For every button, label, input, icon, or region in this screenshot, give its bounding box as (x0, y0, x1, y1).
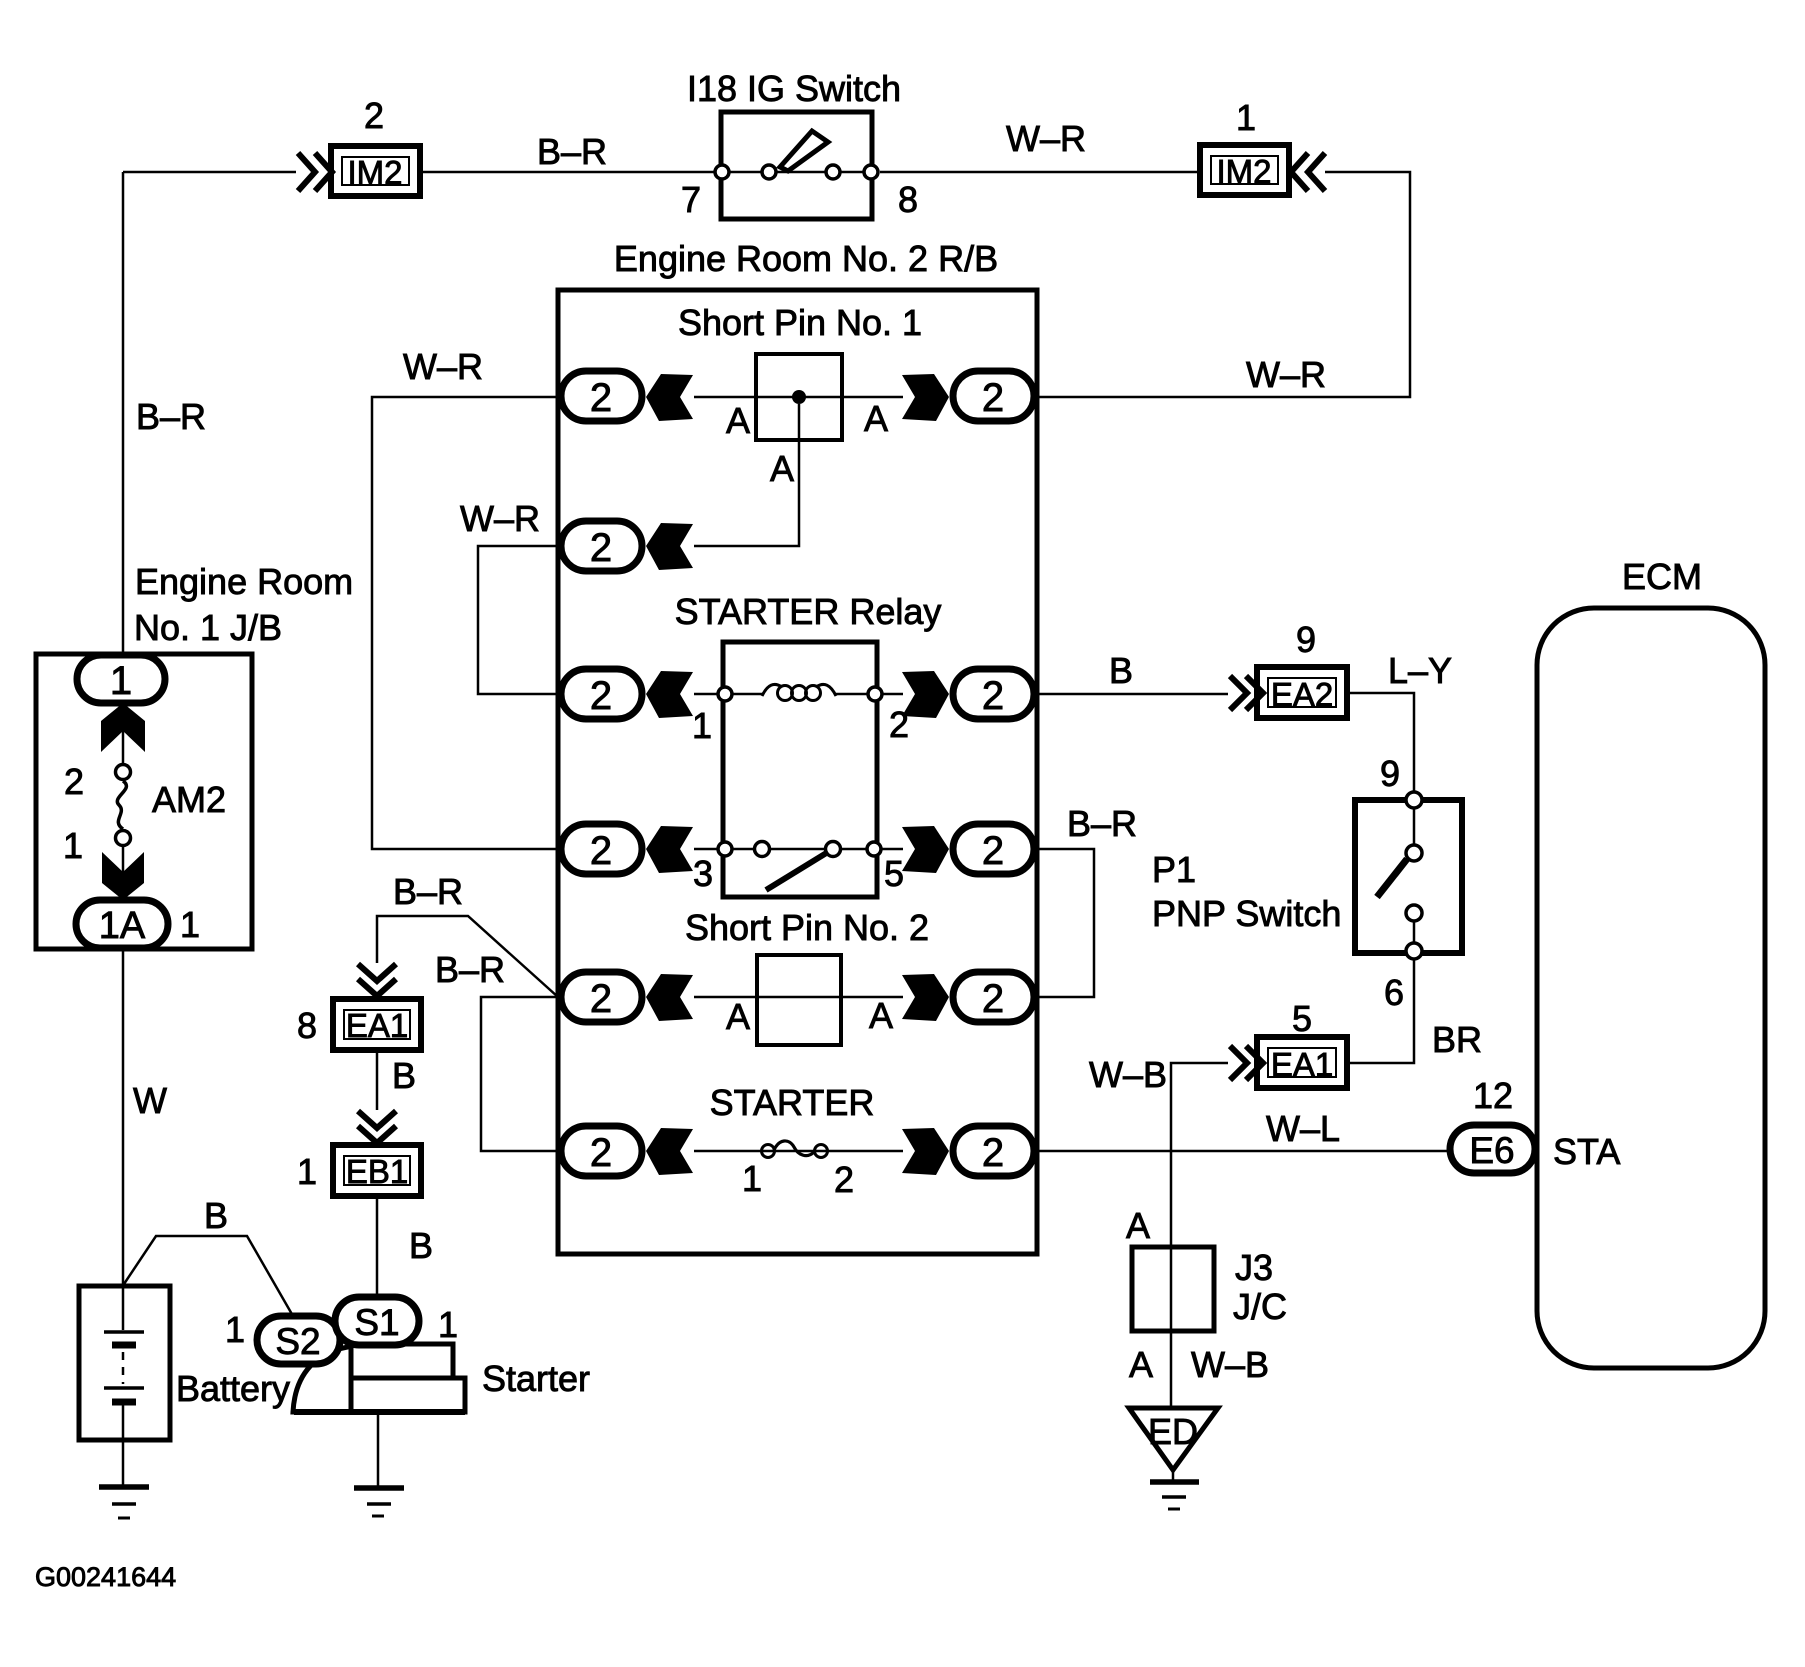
wire W-L from starter fuse to ECM STA (1037, 1150, 1450, 1153)
short pin No.1 body (756, 354, 842, 440)
ground (battery) (99, 1440, 149, 1518)
wire AM2 fuse link bottom (122, 847, 125, 875)
connector oval 2 (row4 left) (561, 824, 642, 874)
svg-text:A: A (864, 398, 888, 439)
wire B-R branch to EA1 (377, 916, 558, 997)
connector oval 2 (row6 left) (561, 1126, 642, 1176)
connector oval S2 (257, 1316, 340, 1364)
connector arrows into EA1 (down) (358, 964, 396, 996)
svg-text:5: 5 (1292, 998, 1312, 1039)
connector oval 2 (row2 left) (561, 521, 642, 571)
svg-text:W–R: W–R (403, 346, 483, 387)
svg-text:A: A (726, 400, 750, 441)
svg-text:2: 2 (982, 829, 1004, 873)
wire B-R from relay contact to short pin2 right (1037, 849, 1094, 997)
svg-text:EA2: EA2 (1271, 676, 1333, 713)
connector arrow (row3 left) (646, 671, 693, 718)
svg-text:1: 1 (742, 1158, 762, 1199)
relay coil pin circles (718, 687, 882, 701)
svg-text:I18 IG Switch: I18 IG Switch (687, 68, 901, 109)
battery (79, 1286, 170, 1440)
svg-text:1: 1 (63, 825, 83, 866)
svg-text:B: B (204, 1195, 228, 1236)
svg-text:STA: STA (1553, 1131, 1620, 1172)
connector arrow (row4 right) (902, 826, 949, 873)
switch P1 PNP Switch (1355, 792, 1462, 959)
svg-text:A: A (770, 448, 794, 489)
connector arrows into IM2 left (298, 153, 332, 191)
connector oval 2 (row5 left) (561, 972, 642, 1022)
svg-text:8: 8 (898, 179, 918, 220)
wire W-R from IG switch pin 8 to IM2 right (880, 171, 1200, 174)
wire B from EB1 to starter S1 (376, 1196, 379, 1297)
junction block Engine Room No. 2 R/B box (558, 290, 1037, 1254)
svg-text:Short Pin No. 2: Short Pin No. 2 (685, 907, 929, 948)
svg-text:PNP Switch: PNP Switch (1152, 893, 1341, 934)
svg-text:G00241644: G00241644 (35, 1562, 176, 1592)
connector oval 2 (row5 right) (953, 972, 1034, 1022)
svg-text:S2: S2 (275, 1321, 320, 1362)
connector oval 2 (row3 left) (561, 669, 642, 719)
wire B from EA1 to EB1 (376, 1050, 379, 1110)
svg-text:EA1: EA1 (1271, 1046, 1333, 1083)
svg-text:J/C: J/C (1233, 1286, 1287, 1327)
svg-text:2: 2 (590, 977, 612, 1021)
wire W-B from J3 to ED ground (1170, 1331, 1173, 1408)
wire row3 relay coil row (694, 693, 903, 696)
svg-text:2: 2 (64, 761, 84, 802)
relay coil (762, 684, 836, 700)
wire row1 inside R/B (694, 396, 903, 399)
svg-text:Engine Room: Engine Room (135, 561, 353, 602)
svg-text:A: A (869, 995, 893, 1036)
svg-text:2: 2 (834, 1159, 854, 1200)
svg-text:2: 2 (364, 95, 384, 136)
wire left vertical riser B-R / W (battery feed) (122, 172, 125, 1287)
svg-text:9: 9 (1380, 753, 1400, 794)
starter motor body (293, 1344, 465, 1412)
connector arrow (row2 left) (646, 523, 693, 570)
svg-text:ED: ED (1148, 1411, 1198, 1452)
wire W-B from junction to EA1 (1171, 1063, 1228, 1247)
svg-text:ECM: ECM (1622, 556, 1702, 597)
relay contact pin circles (718, 842, 881, 857)
svg-text:STARTER Relay: STARTER Relay (675, 591, 942, 632)
connector arrows out of IM2 right (1291, 153, 1325, 191)
svg-text:A: A (1126, 1205, 1150, 1246)
wire B from battery to starter S2 (124, 1236, 293, 1316)
connector arrow (row6 left) (646, 1128, 693, 1175)
svg-text:W–R: W–R (1246, 354, 1326, 395)
svg-text:1: 1 (180, 904, 200, 945)
switch I18 IG Switch (715, 112, 878, 219)
svg-text:A: A (1129, 1344, 1153, 1385)
svg-text:2: 2 (590, 526, 612, 570)
connector oval S1 (335, 1297, 419, 1345)
connector oval 2 (row1 right) (953, 371, 1034, 421)
svg-text:W–L: W–L (1266, 1108, 1340, 1149)
svg-text:2: 2 (982, 977, 1004, 1021)
svg-text:Battery: Battery (176, 1368, 290, 1409)
wire BR from PNP pin 6 to EA1 (1347, 960, 1414, 1063)
svg-text:BR: BR (1432, 1019, 1482, 1060)
svg-text:B: B (392, 1055, 416, 1096)
svg-text:2: 2 (982, 376, 1004, 420)
svg-text:B–R: B–R (393, 871, 463, 912)
connector oval 1A (J/B bottom) (76, 900, 168, 948)
connector oval 1 (J/B top) (77, 655, 165, 703)
svg-text:STARTER: STARTER (710, 1082, 875, 1123)
connector oval E6 (1450, 1125, 1535, 1173)
connector arrows into EA2 (1230, 676, 1263, 710)
svg-text:5: 5 (884, 853, 904, 894)
junction block Engine Room No. 1 J/B box (36, 654, 252, 949)
svg-text:J3: J3 (1235, 1247, 1273, 1288)
wire row4 relay contact row (694, 848, 903, 851)
svg-text:B: B (409, 1225, 433, 1266)
svg-text:L–Y: L–Y (1388, 650, 1452, 691)
connector oval 2 (row4 right) (953, 824, 1034, 874)
svg-text:IM2: IM2 (347, 154, 402, 191)
svg-text:2: 2 (590, 376, 612, 420)
relay contact lever (766, 852, 828, 890)
svg-text:9: 9 (1296, 619, 1316, 660)
connector arrow (row5 right) (902, 974, 949, 1021)
svg-text:1A: 1A (99, 905, 146, 947)
connector oval 2 (row1 left) (561, 371, 642, 421)
connector EA2 (1257, 667, 1347, 718)
svg-text:Short Pin No. 1: Short Pin No. 1 (678, 302, 922, 343)
svg-text:W–R: W–R (1006, 118, 1086, 159)
wire W-R from IM2 right down to R/B row 1 (1037, 172, 1410, 397)
connector arrow (row4 left) (646, 826, 693, 873)
svg-text:B–R: B–R (136, 396, 206, 437)
wire row6 inside R/B (694, 1150, 903, 1153)
svg-text:IM2: IM2 (1216, 153, 1271, 190)
relay STARTER Relay body (723, 642, 877, 897)
svg-text:B–R: B–R (435, 949, 505, 990)
svg-text:12: 12 (1473, 1075, 1513, 1116)
connector EA1 (right) (1257, 1037, 1347, 1088)
svg-text:B: B (1109, 650, 1133, 691)
ground (ED) (1150, 1470, 1199, 1509)
svg-text:1: 1 (110, 659, 132, 703)
ground point ED (1129, 1408, 1218, 1470)
svg-text:Engine Room No. 2 R/B: Engine Room No. 2 R/B (614, 238, 998, 279)
connector arrows into EA1 right (1230, 1046, 1263, 1080)
svg-text:S1: S1 (354, 1302, 399, 1343)
connector EA1 (engine to body) (333, 999, 421, 1050)
svg-text:P1: P1 (1152, 849, 1196, 890)
connector IM2 left (331, 146, 420, 196)
ECM body (1537, 608, 1765, 1368)
wire W-R row1 outside left, down to row4 (372, 397, 558, 849)
svg-text:2: 2 (982, 674, 1004, 718)
connector arrow up (AM2 top) (101, 703, 145, 752)
svg-text:2: 2 (590, 1131, 612, 1175)
svg-text:W: W (133, 1080, 167, 1121)
wire L-Y from EA2 to PNP switch pin 9 (1347, 693, 1414, 792)
svg-text:8: 8 (297, 1005, 317, 1046)
fuse AM2 (116, 765, 131, 846)
connector arrow (row1 left) (646, 374, 693, 421)
connector arrow (row6 right) (902, 1128, 949, 1175)
svg-text:W–B: W–B (1089, 1054, 1167, 1095)
wire AM2 fuse link top (122, 731, 125, 764)
svg-text:3: 3 (693, 853, 713, 894)
connector IM2 right (1200, 145, 1289, 195)
wire B from relay coil to EA2 (1037, 693, 1228, 696)
svg-text:7: 7 (681, 179, 701, 220)
wire B-R from left vertical to IM2 connector 2 (123, 171, 296, 174)
svg-text:A: A (726, 996, 750, 1037)
fuse STARTER (762, 1141, 828, 1158)
svg-text:W–B: W–B (1191, 1344, 1269, 1385)
svg-text:1: 1 (1236, 97, 1256, 138)
svg-text:1: 1 (225, 1309, 245, 1350)
connector arrows into EB1 (down) (358, 1111, 396, 1143)
connector arrow down (AM2 bottom) (102, 852, 144, 900)
wire B-R branch from starter fuse row (481, 997, 558, 1151)
svg-text:B–R: B–R (1067, 803, 1137, 844)
connector oval 2 (row3 right) (953, 669, 1034, 719)
svg-text:Starter: Starter (482, 1358, 590, 1399)
connector arrow (row3 right) (902, 671, 949, 718)
wire B-R from IM2 to IG switch pin 7 (420, 171, 722, 174)
svg-text:2: 2 (590, 674, 612, 718)
connector arrow (row1 right) (902, 374, 949, 421)
wire from short pin1 A down to row2 (694, 404, 799, 546)
svg-text:No. 1 J/B: No. 1 J/B (134, 607, 282, 648)
svg-text:6: 6 (1384, 972, 1404, 1013)
short pin No.2 body (757, 955, 841, 1045)
svg-text:2: 2 (590, 829, 612, 873)
connector arrow (row5 left) (646, 974, 693, 1021)
svg-text:AM2: AM2 (152, 779, 226, 820)
junction connector J3 J/C (1132, 1247, 1214, 1331)
svg-text:B–R: B–R (537, 131, 607, 172)
svg-text:EB1: EB1 (346, 1153, 408, 1190)
wire W-R row2 outside left down to relay coil row (478, 546, 558, 694)
connector EB1 (333, 1145, 421, 1196)
svg-text:W–R: W–R (460, 498, 540, 539)
connector oval 2 (row6 right) (953, 1126, 1034, 1176)
svg-text:1: 1 (297, 1151, 317, 1192)
wire row5 inside R/B (694, 996, 903, 999)
svg-text:EA1: EA1 (346, 1007, 408, 1044)
svg-text:2: 2 (982, 1131, 1004, 1175)
svg-text:1: 1 (438, 1304, 458, 1345)
ground (starter) (354, 1412, 404, 1516)
svg-text:1: 1 (692, 705, 712, 746)
svg-text:E6: E6 (1469, 1130, 1514, 1171)
